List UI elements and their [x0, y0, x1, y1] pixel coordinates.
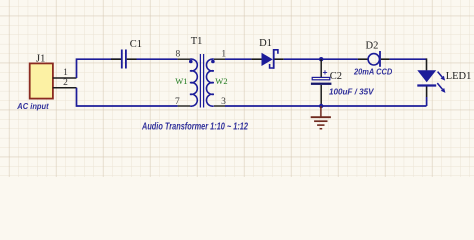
- junction bottom node: [319, 104, 323, 108]
- connector J1: [30, 63, 53, 98]
- pin 8 of T1: [176, 49, 190, 59]
- wire pin1 to C1: [77, 59, 122, 78]
- primary winding W1: [189, 59, 197, 106]
- svg-text:D2: D2: [366, 41, 379, 52]
- svg-text:8: 8: [176, 49, 181, 59]
- svg-text:LED1: LED1: [446, 71, 472, 82]
- wire C2 to bottom rail: [320, 85, 322, 106]
- wire pin2 down to bottom rail: [77, 88, 178, 106]
- LED arrow 2: [437, 83, 445, 93]
- svg-text:2: 2: [63, 78, 68, 88]
- svg-text:+: +: [323, 67, 328, 77]
- svg-text:T1: T1: [191, 36, 203, 47]
- pin 2 of J1: [53, 78, 77, 88]
- current regulator diode D2: [368, 51, 380, 67]
- pin lead right of D2: [381, 58, 390, 60]
- junction top node: [319, 57, 323, 61]
- svg-text:W1: W1: [175, 76, 187, 86]
- pin 3 of T1: [214, 97, 226, 107]
- pin lead right of C1: [127, 58, 137, 60]
- transformer core: [200, 54, 203, 108]
- pin lead left of D2: [358, 58, 368, 60]
- pin lead left of C1: [111, 58, 121, 60]
- svg-text:20mA CCD: 20mA CCD: [353, 67, 392, 77]
- LED arrow 1: [438, 72, 446, 81]
- svg-text:D1: D1: [259, 38, 272, 49]
- svg-text:J1: J1: [36, 54, 45, 65]
- wire C1 to T1 pin8: [137, 58, 178, 60]
- svg-text:AC input: AC input: [16, 101, 49, 111]
- ground: [311, 106, 331, 129]
- diode D1: [262, 49, 278, 69]
- svg-text:Audio Transformer 1:10 ~ 1:12: Audio Transformer 1:10 ~ 1:12: [141, 121, 248, 133]
- pin 1 of T1: [214, 49, 226, 59]
- capacitor C1: [122, 50, 126, 69]
- pin lead right of D1: [275, 58, 284, 60]
- svg-text:W2: W2: [215, 76, 227, 86]
- svg-text:C2: C2: [330, 71, 342, 82]
- svg-text:1: 1: [63, 68, 68, 78]
- LED LED1: [417, 58, 436, 106]
- svg-text:7: 7: [175, 97, 180, 107]
- svg-text:1: 1: [221, 49, 226, 59]
- svg-text:C1: C1: [130, 39, 142, 50]
- wire D2 to LED corner: [390, 58, 427, 60]
- pin 1 of J1: [53, 68, 77, 78]
- secondary winding W2: [206, 59, 214, 106]
- pin lead left of D1: [251, 58, 261, 60]
- svg-text:100uF / 35V: 100uF / 35V: [329, 86, 375, 96]
- wire D1 to D2: [284, 58, 358, 60]
- capacitor C2: [311, 67, 332, 85]
- wire bottom rail T1 pin3 to LED: [225, 105, 427, 107]
- wire T1 pin1 to D1: [225, 58, 251, 60]
- pin 7 of T1: [175, 97, 190, 107]
- wire C2 branch top: [320, 59, 322, 77]
